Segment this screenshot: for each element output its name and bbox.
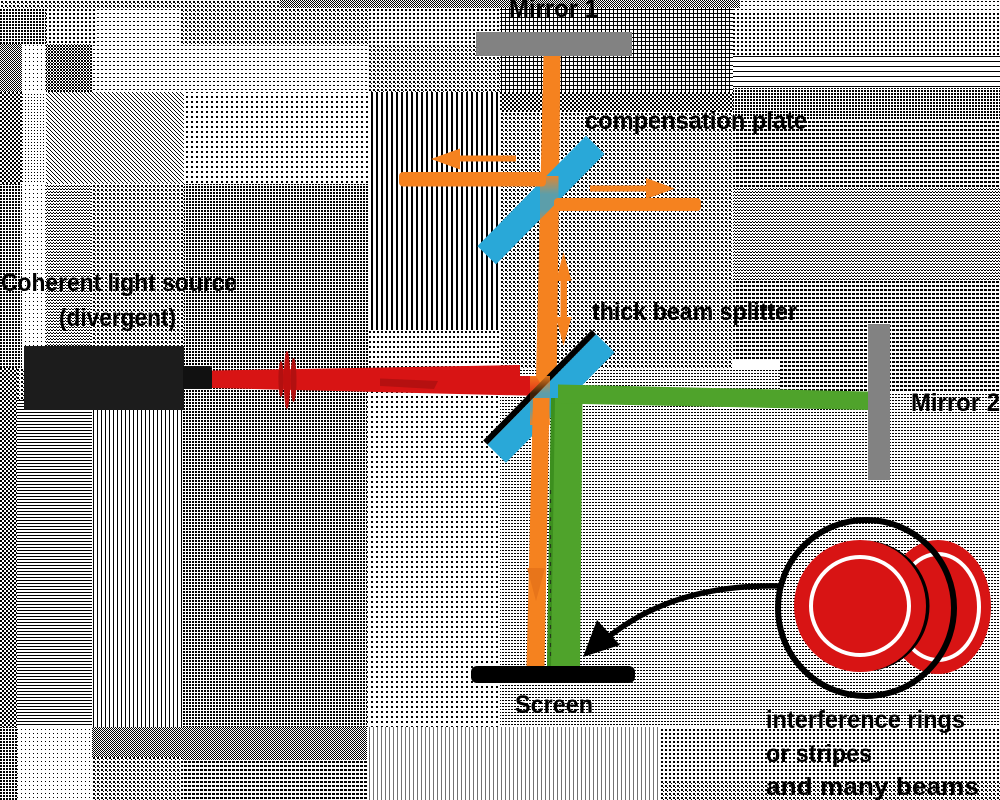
mirror M2 <box>868 324 890 480</box>
label (divergent) <box>59 304 176 332</box>
orange notch arrow <box>527 568 545 601</box>
orange bar right <box>554 198 701 211</box>
dashed centre line <box>550 490 552 660</box>
orange bar left <box>399 172 546 187</box>
beam red <box>212 365 542 396</box>
svg-text:or stripes: or stripes <box>766 740 872 768</box>
source nozzle <box>183 366 212 389</box>
curved arrow to screen <box>583 586 779 657</box>
label Coherent light source <box>1 269 237 297</box>
label thick beam splitter <box>592 298 797 326</box>
thick beam splitter plate <box>483 330 614 463</box>
beam blend over splitter <box>530 376 550 425</box>
orange arrow right <box>590 178 675 199</box>
svg-text:(divergent): (divergent) <box>59 304 176 332</box>
label or stripes <box>766 740 872 768</box>
beam blend over compensation plate <box>540 176 559 228</box>
orange double arrow <box>556 252 572 346</box>
svg-text:Screen: Screen <box>515 691 593 719</box>
beam orange vertical lower <box>527 398 550 667</box>
svg-text:Mirror 2: Mirror 2 <box>911 389 1000 417</box>
beam green vertical <box>547 398 583 667</box>
svg-text:Mirror 1: Mirror 1 <box>509 0 598 23</box>
svg-text:thick beam splitter: thick beam splitter <box>592 298 797 326</box>
svg-text:compensation plate: compensation plate <box>585 107 807 135</box>
label Screen <box>515 691 593 719</box>
mirror M1 <box>476 32 632 56</box>
beam orange vertical upper <box>536 54 561 400</box>
label compensation plate <box>585 107 807 135</box>
label interference rings <box>766 706 965 734</box>
label Mirror 1 <box>509 0 598 23</box>
svg-text:and many beams: and many beams <box>766 773 979 800</box>
red wave squiggle <box>278 351 296 409</box>
beam green horizontal <box>558 385 868 411</box>
svg-text:interference rings: interference rings <box>766 706 965 734</box>
source box <box>24 346 184 410</box>
label and many beams <box>766 773 979 800</box>
screen bar <box>471 666 635 683</box>
compensation plate <box>477 136 604 265</box>
interference rings figure <box>778 520 991 696</box>
svg-text:Coherent light source: Coherent light source <box>1 269 237 297</box>
label Mirror 2 <box>911 389 1000 417</box>
orange arrow left <box>431 149 516 170</box>
